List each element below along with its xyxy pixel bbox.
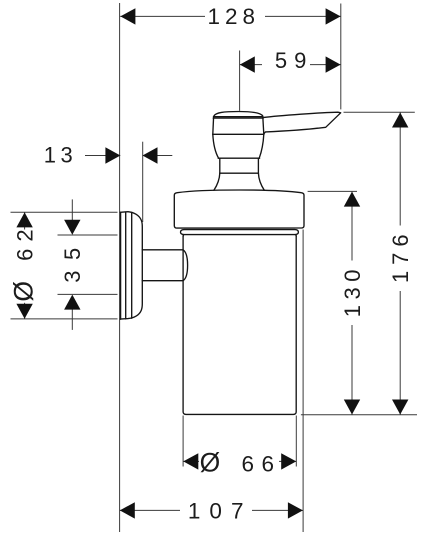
taper right — [259, 134, 264, 158]
dim line dia62 top segment — [24, 212, 26, 229]
neck bottom line — [220, 172, 259, 174]
flange outline — [120, 212, 142, 319]
bell left — [214, 173, 220, 190]
arrow 107 left — [120, 502, 135, 518]
cap right side — [263, 117, 264, 135]
svg-text:128: 128 — [208, 4, 261, 29]
rim fillet right — [294, 235, 297, 237]
arrow 59 left — [240, 56, 255, 72]
arrow 107 right — [288, 502, 303, 518]
dim line dia66 left stub — [183, 460, 199, 462]
arm bottom — [142, 280, 183, 282]
arrow 130 down — [344, 400, 360, 415]
bottom extension line for 130/176 — [301, 414, 417, 416]
dim line 176 bottom segment — [399, 291, 401, 415]
arrow 128 right — [326, 8, 341, 24]
arrow 130 up — [344, 192, 360, 207]
svg-text:Ø 66: Ø 66 — [200, 448, 282, 478]
dim line 107 left segment — [120, 509, 180, 511]
13 extension line — [142, 142, 144, 222]
dim line 59 right segment — [310, 64, 341, 66]
svg-text:Ø 62: Ø 62 — [9, 222, 39, 301]
arm top — [142, 249, 183, 251]
dim line 35 top stem — [71, 199, 73, 226]
arrow dia62 down — [16, 304, 32, 319]
dim line dia62 bottom segment — [24, 303, 26, 319]
107 right extension line — [302, 230, 304, 533]
svg-text:35: 35 — [60, 237, 85, 282]
svg-text:107: 107 — [188, 498, 253, 523]
dim line 128 left segment — [120, 15, 205, 17]
taper bottom line — [218, 157, 259, 159]
under-dome line 1 — [214, 116, 263, 118]
flange back edge — [120, 212, 122, 319]
rim band — [181, 230, 299, 235]
dia62 bottom extension line — [11, 318, 118, 320]
dim line 128 right segment — [265, 15, 341, 17]
neck left — [219, 158, 221, 173]
taper left — [213, 134, 219, 158]
dia66 right extension line — [295, 416, 297, 467]
dim line 130 top segment — [351, 191, 353, 260]
collar arc — [183, 250, 188, 281]
59 left extension line — [239, 51, 241, 111]
dia62 top extension line — [11, 211, 118, 213]
arrow 13 pointing left at flange face — [143, 147, 158, 163]
svg-text:176: 176 — [388, 228, 413, 283]
container body — [183, 236, 296, 415]
arrow 13 pointing right at wall — [105, 147, 120, 163]
arrow 176 down — [392, 400, 408, 415]
arrow dia62 up — [16, 212, 32, 227]
35 bottom extension line — [58, 293, 118, 295]
flange inner line 2 — [131, 212, 133, 318]
176 top extension line — [344, 111, 415, 113]
cap left side — [212, 117, 215, 135]
dim line dia66 right stub — [279, 460, 296, 462]
right extension line for 128/59 — [340, 4, 342, 110]
svg-text:59: 59 — [275, 48, 313, 73]
arrow dia66 left — [183, 453, 198, 469]
under-dome line 2 — [213, 117, 263, 119]
lid outline — [174, 190, 304, 228]
svg-text:13: 13 — [44, 142, 77, 167]
svg-text:130: 130 — [340, 264, 365, 317]
arrow 35 up (below bottom ext line) — [64, 295, 80, 310]
lever — [263, 112, 341, 134]
dim line 130 bottom segment — [351, 325, 353, 415]
wall extension line — [119, 3, 121, 532]
rim fillet left — [182, 235, 185, 237]
dim line 35 bottom stem — [71, 303, 73, 330]
dia66 left extension line — [182, 416, 184, 467]
dim line 176 top segment — [399, 112, 401, 225]
cap seam — [213, 133, 264, 135]
dim line 59 left segment — [240, 64, 262, 66]
arrow 176 up — [392, 113, 408, 128]
dim line 13 right tail — [143, 155, 173, 157]
arrow 128 left — [120, 8, 135, 24]
35 top extension line — [58, 234, 118, 236]
130 top extension line — [308, 190, 357, 192]
flange inner line 1 — [125, 212, 127, 319]
arrow 59 right — [326, 56, 341, 72]
arrow dia66 right — [281, 453, 296, 469]
pump dome arc — [214, 112, 263, 117]
arrow 35 down (above top ext line) — [64, 220, 80, 235]
neck right — [257, 158, 259, 173]
dim line 13 left segment — [85, 155, 120, 157]
bell right — [258, 173, 264, 190]
dim line 107 right segment — [252, 509, 303, 511]
